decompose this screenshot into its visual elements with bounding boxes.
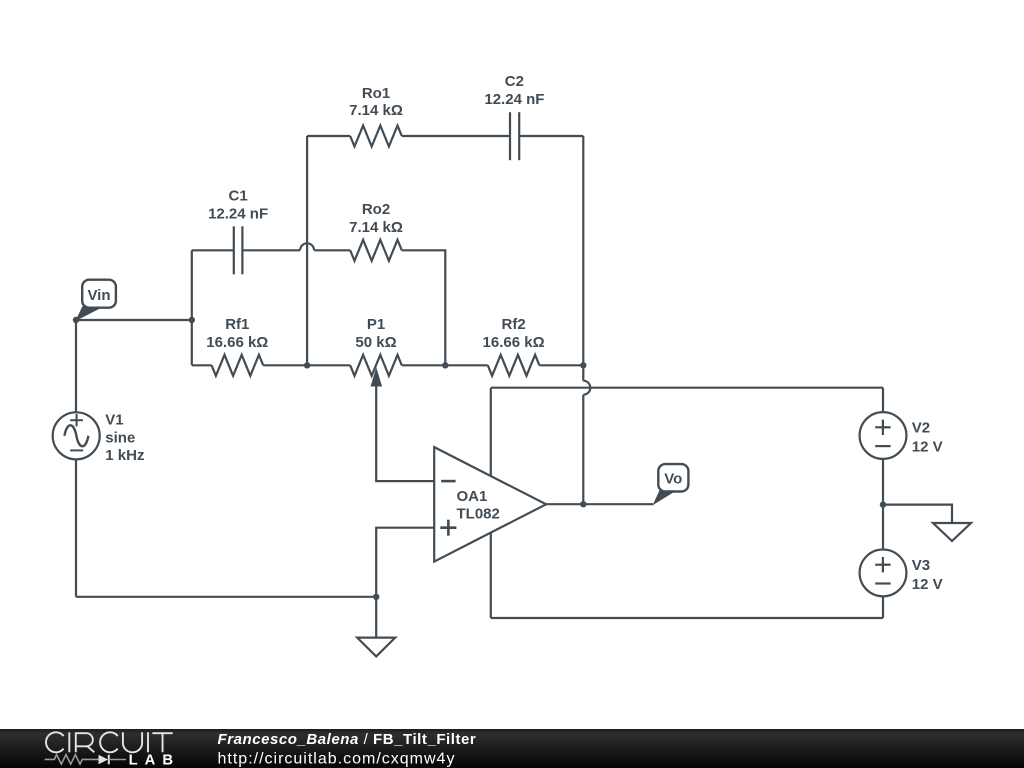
wire top supply rail bbox=[491, 387, 883, 389]
node ground junction bbox=[373, 594, 379, 600]
wire Rf2 to right vertical bbox=[539, 364, 583, 366]
wire V1 bottom down bbox=[75, 459, 77, 597]
potentiometer P1 wiper arrow bbox=[371, 368, 383, 387]
svg-text:Francesco_Balena / FB_Tilt_Fil: Francesco_Balena / FB_Tilt_Filter bbox=[218, 731, 477, 748]
svg-text:16.66 kΩ: 16.66 kΩ bbox=[483, 334, 545, 351]
svg-text:7.14 kΩ: 7.14 kΩ bbox=[349, 102, 403, 119]
V1 plus sign bbox=[70, 414, 83, 426]
wire Vin node down to V1 bbox=[75, 320, 77, 412]
svg-text:12.24 nF: 12.24 nF bbox=[484, 91, 544, 108]
node Rf1 left junction bbox=[189, 317, 195, 323]
net flag Vin bbox=[75, 280, 115, 321]
ground symbol right bbox=[933, 523, 971, 541]
wire op-amp output bbox=[546, 503, 653, 505]
svg-text:Rf2: Rf2 bbox=[502, 316, 526, 333]
ground symbol left bbox=[357, 638, 395, 657]
svg-text:50 kΩ: 50 kΩ bbox=[355, 334, 396, 351]
svg-text:http://circuitlab.com/cxqmw4y: http://circuitlab.com/cxqmw4y bbox=[218, 750, 456, 767]
wire Vin node horizontal bbox=[76, 319, 192, 321]
V2 plus sign bbox=[875, 420, 890, 435]
wire V2 to mid node bbox=[882, 459, 884, 505]
wire wiper shaft to minus input bbox=[376, 384, 434, 481]
wire bottom supply rail bbox=[491, 617, 883, 619]
logo diode bbox=[99, 755, 109, 765]
svg-text:V2: V2 bbox=[912, 419, 930, 436]
wire right vertical x=583.3 upper bbox=[582, 136, 584, 381]
wire hop over supply rail bbox=[583, 381, 590, 395]
op-amp OA1 body bbox=[434, 447, 546, 561]
wire bottom horizontal to ground node bbox=[76, 596, 376, 598]
svg-text:Ro1: Ro1 bbox=[362, 85, 390, 102]
node P1-Rf2 junction bbox=[442, 362, 448, 368]
source V2 circle bbox=[860, 412, 907, 459]
svg-text:sine: sine bbox=[105, 430, 135, 447]
svg-text:C1: C1 bbox=[229, 188, 248, 205]
wire hop over vertical x=307 bbox=[300, 243, 314, 250]
wire mid node to V3 bbox=[882, 505, 884, 550]
svg-text:16.66 kΩ: 16.66 kΩ bbox=[206, 334, 268, 351]
node Vin junction bbox=[73, 317, 79, 323]
svg-text:1 kHz: 1 kHz bbox=[105, 447, 144, 464]
svg-text:P1: P1 bbox=[367, 316, 385, 333]
svg-text:12 V: 12 V bbox=[912, 576, 943, 593]
wire C2 to right corner bbox=[519, 135, 583, 137]
wire Ro1 to C2 bbox=[402, 135, 510, 137]
source V3 circle bbox=[860, 550, 907, 597]
svg-text:V3: V3 bbox=[912, 557, 930, 574]
logo CIRCUIT text bbox=[46, 732, 173, 752]
wire top rail left segment bbox=[307, 135, 350, 137]
node junction dots bbox=[73, 317, 886, 600]
wire mid node to right ground bbox=[883, 505, 952, 523]
wire V3 to bottom rail bbox=[882, 596, 884, 618]
op-amp supply wire vertical x=490.8 bbox=[490, 388, 492, 618]
svg-text:V1: V1 bbox=[105, 412, 123, 429]
svg-text:12 V: 12 V bbox=[912, 438, 943, 455]
node Rf2 right junction bbox=[580, 362, 586, 368]
footer bar bbox=[0, 729, 1024, 768]
wire bottom row start bbox=[192, 364, 212, 366]
capacitor C2 bbox=[510, 112, 519, 160]
V1 sine symbol bbox=[64, 425, 88, 446]
wire C1 to hop bbox=[242, 249, 300, 251]
wire top-left vertical x=307 bbox=[306, 136, 308, 365]
resistor Ro2 bbox=[350, 240, 402, 261]
wire hop to Ro2 bbox=[314, 249, 350, 251]
svg-text:Vin: Vin bbox=[87, 287, 110, 304]
wire right vertical x=583.3 lower bbox=[582, 395, 584, 505]
node supply mid junction bbox=[880, 501, 886, 507]
svg-text:12.24 nF: 12.24 nF bbox=[208, 206, 268, 223]
svg-text:OA1: OA1 bbox=[457, 488, 488, 505]
wire Rf1 to P1 bbox=[263, 364, 350, 366]
svg-text:Rf1: Rf1 bbox=[225, 316, 249, 333]
wire to C1 bbox=[192, 249, 234, 251]
wire rail to V2 bbox=[882, 388, 884, 412]
wire C1 row left vertical x=191.8 bbox=[191, 250, 193, 365]
svg-text:7.14 kΩ: 7.14 kΩ bbox=[349, 219, 403, 236]
node output junction bbox=[580, 501, 586, 507]
svg-text:LAB: LAB bbox=[129, 753, 180, 768]
net flag Vo bbox=[653, 464, 689, 505]
wire Ro2 right corner down bbox=[402, 250, 446, 365]
ground stem left bbox=[375, 597, 377, 638]
resistor Rf2 bbox=[488, 355, 540, 376]
potentiometer P1 body bbox=[350, 355, 402, 376]
svg-text:TL082: TL082 bbox=[457, 506, 500, 523]
V1 minus sign bbox=[70, 449, 83, 451]
wire plus-input leg bbox=[376, 528, 434, 597]
V3 minus sign bbox=[875, 582, 890, 584]
node Rf1-P1 junction bbox=[304, 362, 310, 368]
svg-text:C2: C2 bbox=[505, 73, 524, 90]
op-amp minus glyph bbox=[441, 480, 455, 483]
svg-text:Ro2: Ro2 bbox=[362, 201, 390, 218]
V3 plus sign bbox=[875, 557, 890, 572]
wire P1 to Rf2 bbox=[402, 364, 488, 366]
resistor Ro1 bbox=[350, 126, 402, 147]
source V1 circle bbox=[53, 412, 100, 459]
resistor Rf1 bbox=[212, 355, 264, 376]
V2 minus sign bbox=[875, 445, 890, 447]
op-amp plus glyph bbox=[440, 520, 456, 536]
logo resistor zigzag bbox=[45, 755, 99, 764]
capacitor C1 bbox=[234, 226, 243, 274]
svg-text:Vo: Vo bbox=[664, 471, 682, 488]
